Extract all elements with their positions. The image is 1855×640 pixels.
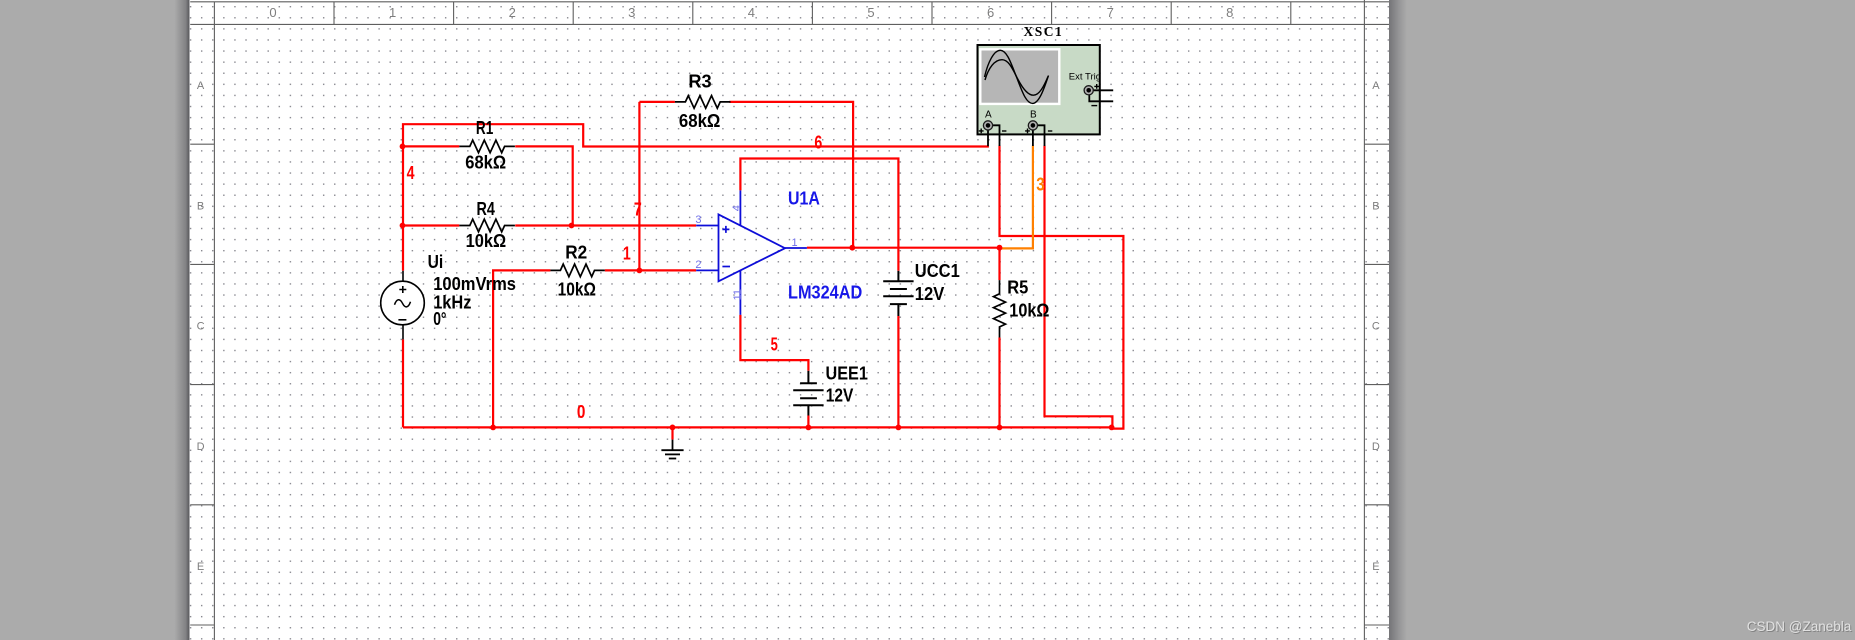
svg-text:0: 0 (577, 401, 586, 422)
wire R1 row leads (net 4 / R1 right vertical) (403, 146, 573, 225)
wire net 0 branch: R2 left down to ground rail (493, 270, 550, 427)
grid dots (190, 0, 1390, 640)
svg-text:12V: 12V (915, 284, 945, 304)
resistor R4 (459, 219, 515, 232)
op-amp +/- marks (722, 226, 730, 267)
wire UCC1 bottom to ground rail (897, 316, 899, 427)
svg-text:A: A (197, 80, 205, 92)
svg-text:2: 2 (695, 259, 701, 271)
wire R3 row / feedback down to output (639, 102, 853, 248)
wire scope A- right loop (1000, 146, 1124, 429)
svg-text:Ui: Ui (428, 252, 444, 272)
white schematic sheet (190, 0, 1390, 640)
svg-text:D: D (197, 441, 205, 453)
svg-text:68kΩ: 68kΩ (465, 153, 506, 173)
svg-text:E: E (197, 561, 204, 573)
svg-text:10kΩ: 10kΩ (1009, 301, 1049, 321)
Ext Trig terminal (1084, 86, 1093, 95)
svg-text:UCC1: UCC1 (915, 261, 960, 281)
svg-text:10kΩ: 10kΩ (558, 280, 596, 300)
left panel shadow (175, 0, 190, 640)
scope screen (980, 49, 1059, 104)
scope pin stubs (black) (988, 90, 1113, 146)
resistor R1 (459, 140, 515, 153)
wire R5 leads (998, 248, 1000, 428)
svg-text:R1: R1 (476, 118, 493, 138)
svg-text:R5: R5 (1007, 277, 1028, 297)
source Ui (AC) (381, 271, 425, 340)
ruler letters left (197, 80, 1381, 573)
watermark CSDN @Zanebla (1747, 619, 1853, 635)
svg-text:C: C (197, 321, 205, 333)
svg-text:R3: R3 (688, 71, 711, 91)
svg-text:1: 1 (623, 242, 631, 263)
svg-text:5: 5 (771, 334, 778, 355)
svg-text:B: B (1372, 200, 1379, 212)
battery UEE1 (793, 371, 823, 416)
svg-text:CSDN @Zanebla: CSDN @Zanebla (1747, 619, 1852, 634)
resistor R2 (550, 264, 604, 277)
svg-text:XSC1: XSC1 (1024, 24, 1064, 39)
ruler division ticks (letter columns) (190, 144, 1389, 625)
junction dots (400, 144, 1115, 431)
wire net 6: op-amp output to R5 top (807, 247, 1000, 249)
ruler frame lines (190, 0, 1389, 640)
svg-text:0: 0 (269, 5, 276, 20)
wire R4 row / net 7 to op-amp pin3 (403, 224, 696, 226)
svg-text:7: 7 (1107, 5, 1114, 20)
ruler numbers (269, 5, 1233, 20)
wire net 4: Ui top to R1/R4 left rail and top loop to scope A+ (403, 124, 989, 271)
wire V+ supply: pin4 up, over and down to UCC1 (740, 159, 898, 271)
svg-text:68kΩ: 68kΩ (679, 111, 721, 131)
svg-text:3: 3 (695, 214, 701, 226)
svg-text:A: A (1372, 80, 1380, 92)
svg-text:6: 6 (814, 132, 822, 153)
wire net 1: R2 right to op-amp pin2 and R3 left vertical (605, 102, 696, 271)
port B terminal (1028, 121, 1037, 130)
svg-text:5: 5 (867, 5, 874, 20)
svg-text:LM324AD: LM324AD (788, 283, 862, 303)
svg-text:R4: R4 (477, 199, 495, 219)
op-amp U1A triangle (696, 190, 807, 314)
svg-text:100mVrms: 100mVrms (433, 274, 516, 294)
svg-text:U1A: U1A (788, 188, 820, 208)
svg-text:3: 3 (628, 5, 635, 20)
oscilloscope XSC1 body (978, 45, 1100, 134)
wire ground rail net 0 (403, 339, 1112, 427)
svg-text:3: 3 (1036, 174, 1045, 195)
svg-text:4: 4 (731, 205, 743, 211)
svg-text:7: 7 (634, 198, 642, 219)
ground (661, 427, 683, 458)
svg-text:12V: 12V (826, 386, 854, 406)
svg-text:1: 1 (389, 5, 396, 20)
svg-text:1: 1 (792, 237, 798, 249)
scope waveform A (985, 50, 1049, 103)
wire net 3 (orange): scope B+ to output node (1000, 146, 1033, 249)
resistor R5 (vertical) (994, 280, 1006, 337)
svg-text:B: B (197, 200, 204, 212)
svg-text:10kΩ: 10kΩ (466, 231, 507, 251)
svg-text:2: 2 (509, 5, 516, 20)
right sheet shadow (1389, 0, 1407, 640)
ruler division ticks (top band) (334, 2, 1291, 25)
svg-text:4: 4 (748, 5, 755, 20)
port A terminal (983, 121, 992, 130)
svg-text:R2: R2 (565, 243, 587, 263)
svg-text:4: 4 (407, 162, 415, 183)
wire scope B- down to ground rail (1045, 146, 1113, 428)
svg-text:UEE1: UEE1 (826, 363, 868, 383)
svg-text:6: 6 (987, 5, 994, 20)
svg-text:D: D (1372, 441, 1380, 453)
svg-text:0°: 0° (433, 309, 446, 329)
battery UCC1 (883, 271, 913, 316)
svg-text:8: 8 (1226, 5, 1233, 20)
svg-text:A: A (985, 110, 992, 121)
wire V- supply: pin11 down to UEE1 top (740, 315, 808, 428)
svg-text:B: B (1030, 110, 1037, 121)
resistor R3 (675, 96, 731, 109)
scope waveform B (985, 60, 1048, 96)
svg-text:Ext Trig: Ext Trig (1069, 71, 1101, 82)
svg-text:11: 11 (732, 289, 744, 300)
svg-text:E: E (1372, 561, 1379, 573)
port polarity marks (979, 84, 1099, 133)
svg-text:C: C (1372, 321, 1380, 333)
